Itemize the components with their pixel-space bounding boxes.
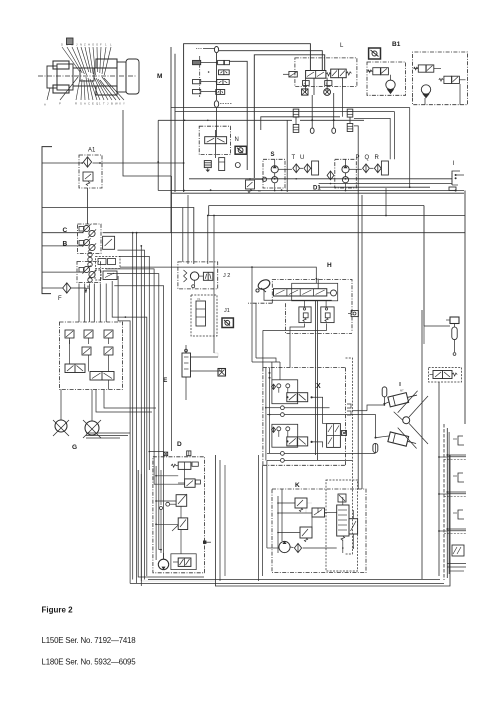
wire staircase 3: [106, 269, 154, 484]
pump P2 group: [335, 159, 357, 188]
valve K2: [312, 508, 325, 517]
pilot oval right: [332, 93, 336, 133]
steering cylinders: [388, 390, 418, 448]
fan motor G1: [53, 390, 69, 437]
small reservoir box: [219, 158, 225, 171]
icon N symbol box: [235, 146, 246, 154]
label N: [235, 137, 239, 143]
filter silencer below N: [204, 161, 211, 172]
accumulator steering 2: [373, 444, 378, 453]
label A1: [88, 148, 96, 154]
wire cluster drops to G: [79, 284, 106, 323]
shock valve right: [321, 307, 334, 323]
label R: [375, 155, 380, 161]
wire pilot line y120: [158, 119, 364, 121]
valve K1: [295, 498, 307, 512]
wire drop x214: [213, 215, 218, 357]
label B: [63, 241, 68, 248]
svg-text:1: 1: [105, 43, 107, 47]
symbol crossed square under L: [302, 89, 308, 95]
svg-text:R: R: [375, 155, 380, 161]
fan motor valve group left of B1: [367, 62, 406, 95]
svg-text:A: A: [44, 103, 46, 107]
wire X internal: [312, 397, 327, 447]
priority valve L: [283, 58, 357, 87]
pilot oval left: [310, 95, 314, 133]
enclosure X dashdot: [263, 368, 346, 466]
wire G to D links: [96, 380, 156, 412]
icon J1 symbol box: [222, 318, 233, 328]
label M: [157, 73, 162, 80]
label D1: [313, 186, 321, 192]
wire cluster drops right: [112, 276, 147, 583]
wire M top edge to L: [184, 44, 311, 107]
valve D3a: [166, 494, 187, 506]
wire H risers: [264, 278, 318, 300]
accumulator steering 1: [382, 387, 387, 405]
svg-text:W: W: [115, 102, 118, 106]
wire bus y178: [189, 178, 452, 180]
port symbol box under L 2: [325, 81, 332, 86]
enclosure K dashdot: [272, 489, 366, 573]
svg-text:H: H: [88, 43, 90, 47]
wire K internals: [267, 489, 354, 553]
component I unit: [449, 161, 464, 192]
component E2 box: [218, 369, 226, 377]
enclosure D dashdot: [153, 457, 205, 573]
wire bus y215: [209, 206, 465, 216]
svg-text:B: B: [111, 102, 113, 106]
enclosure K inner dashed: [326, 480, 358, 571]
wire left bracket: [42, 147, 52, 294]
spring cylinder K: [337, 505, 349, 541]
svg-text:D: D: [61, 43, 63, 47]
wire X quick couplings low: [267, 452, 376, 463]
wire tank stubs: [438, 456, 447, 532]
wire cylinder feeds: [352, 402, 389, 453]
steering wheel: [256, 278, 272, 292]
solenoid valve group X lower: [272, 424, 313, 447]
svg-text:T: T: [103, 102, 105, 106]
machine callout leader lines top: [62, 47, 111, 75]
wire B1 returns: [171, 84, 460, 159]
wire bus y183: [319, 183, 452, 185]
wire A1 down: [87, 188, 89, 224]
label B1: [392, 41, 401, 48]
svg-text:Figure 2: Figure 2: [42, 605, 74, 614]
wire bus y207: [42, 208, 194, 265]
wire staircase 5: [114, 286, 163, 559]
svg-text:S: S: [271, 152, 275, 158]
label L: [340, 43, 344, 49]
enclosure K outer 2: [220, 460, 225, 581]
label C: [63, 227, 68, 234]
wire X feeds top: [251, 266, 280, 380]
cooling fan valve block B1: [413, 52, 468, 105]
svg-text:X: X: [119, 102, 121, 106]
svg-text:X: X: [316, 383, 321, 390]
servo valve cluster ABC: [77, 224, 101, 283]
wire bus y233: [103, 232, 465, 234]
wire middle vertical bundle: [133, 233, 142, 586]
check valve D1: [327, 171, 334, 180]
label K: [295, 482, 300, 489]
wire drop x171: [171, 176, 173, 451]
valve M brake: [246, 177, 267, 193]
twin spool valve X: [327, 424, 347, 448]
svg-text:E: E: [92, 102, 94, 106]
label X: [316, 383, 321, 390]
check valve T: [293, 164, 300, 173]
component pressure unit right: [446, 317, 459, 355]
check valve K: [294, 543, 301, 552]
label J2: [223, 273, 230, 279]
svg-text:D: D: [177, 441, 182, 448]
wire bus y190: [158, 190, 464, 192]
wire D internals: [155, 466, 184, 560]
right small marks: [347, 404, 351, 415]
label G: [72, 444, 77, 451]
svg-text:H: H: [327, 262, 332, 269]
wire long verticals mid: [315, 301, 317, 461]
label T: [292, 155, 296, 161]
valve D bottom: [171, 554, 196, 570]
icon B1 symbol box: [369, 48, 381, 59]
wire pilot right bend: [354, 118, 390, 159]
machine callout letters: [44, 38, 125, 107]
label P: [356, 155, 360, 161]
svg-text:P: P: [59, 102, 61, 106]
check valve F: [63, 283, 71, 293]
svg-text:J1: J1: [224, 308, 230, 314]
svg-text:A: A: [304, 82, 306, 86]
small box K: [338, 494, 346, 502]
svg-text:S: S: [80, 102, 82, 106]
svg-text:L180E Ser. No. 5932—6095: L180E Ser. No. 5932—6095: [42, 657, 137, 666]
wire bottom line 1: [148, 579, 440, 581]
tall dashed box right: [346, 358, 353, 554]
wire L right drop: [342, 89, 344, 117]
symbol crossed circle under L: [324, 89, 331, 96]
cartridge stack left under L: [293, 109, 299, 132]
label D: [177, 441, 182, 448]
enclosure D outer: [138, 470, 215, 581]
wire cluster right B: [120, 267, 316, 283]
svg-text:G: G: [96, 43, 98, 47]
wire bus y176: [123, 110, 172, 176]
wire A1 to bus: [157, 120, 159, 190]
wire D entering lines: [149, 451, 164, 560]
wire D exit right: [203, 541, 211, 544]
wire right drop x424: [423, 206, 425, 327]
wire X to K verticals: [259, 455, 267, 581]
label E: [163, 377, 168, 384]
valve K4: [349, 519, 358, 534]
svg-text:B: B: [63, 241, 68, 248]
svg-text:O: O: [92, 43, 95, 47]
label II: [399, 382, 404, 393]
label J1: [224, 308, 230, 314]
wire staircase 4: [107, 274, 159, 550]
wire bus y187: [319, 186, 430, 188]
port symbol box under L: [303, 81, 310, 86]
label Q circle: [235, 163, 240, 168]
servo cluster right boxes: [95, 236, 120, 280]
wire drop x207: [207, 215, 209, 264]
svg-text:1: 1: [99, 102, 101, 106]
wire y162 through A1: [42, 162, 185, 164]
svg-text:J 2: J 2: [223, 273, 230, 279]
tank assembly: [444, 424, 466, 580]
valve right dashed: [429, 368, 462, 383]
wire E links: [186, 345, 222, 400]
wire H below: [290, 300, 331, 307]
check valve U: [304, 164, 311, 173]
tank box PQR: [381, 161, 388, 175]
note text under motor: [86, 433, 130, 438]
wire verticals x359: [354, 126, 362, 489]
check valve P: [363, 164, 370, 173]
wire H exits: [263, 324, 327, 368]
valve D4a: [172, 518, 188, 531]
svg-text:A: A: [84, 102, 86, 106]
machine overview top view: [38, 59, 139, 95]
svg-text:T: T: [292, 155, 296, 161]
wire B1 drop x408: [409, 108, 411, 189]
enclosure M left verticals: [171, 47, 175, 233]
wire G interior drops: [70, 340, 109, 372]
caption L180E: [42, 657, 137, 666]
wire B row: [42, 245, 84, 247]
svg-text:G: G: [72, 444, 77, 451]
svg-text:Z: Z: [84, 43, 86, 47]
pump J2 group: [178, 262, 218, 289]
wire staircase 1: [118, 250, 145, 579]
svg-text:I: I: [453, 161, 455, 167]
wire b1 return mid: [261, 117, 340, 130]
valve block G: [60, 322, 123, 390]
wire right col verticals: [422, 310, 439, 579]
wire M row1 drop: [229, 61, 247, 170]
label A: [86, 286, 90, 292]
wire bus y195: [171, 189, 464, 193]
wire drop x188: [187, 195, 189, 264]
svg-text:Q: Q: [365, 155, 370, 161]
caption L150E: [42, 636, 137, 645]
icon D small crossbox: [164, 452, 168, 456]
svg-text:A1: A1: [88, 148, 96, 154]
valve N assembly: [199, 126, 230, 158]
svg-text:MT: MT: [400, 389, 404, 393]
svg-text:L: L: [340, 43, 344, 49]
pump D bottom: [158, 559, 168, 569]
wire bundle to D K: [136, 451, 138, 453]
wire M pump to L b: [219, 51, 322, 71]
wire X left verticals: [265, 368, 271, 461]
svg-text:N: N: [80, 43, 82, 47]
fan motor G2: [83, 390, 101, 439]
label S: [271, 152, 275, 158]
svg-text:R: R: [75, 102, 77, 106]
wire staircase 2: [119, 256, 149, 470]
valve D1a: [171, 462, 198, 469]
svg-text:M: M: [258, 189, 261, 193]
wire brake link: [250, 178, 262, 180]
wire drop x386: [385, 188, 387, 216]
wire pump drops: [274, 178, 347, 191]
steering valve H: [274, 283, 338, 301]
component H side box: [348, 311, 358, 317]
svg-text:F: F: [58, 296, 62, 302]
svg-text:K: K: [295, 482, 300, 489]
svg-text:E: E: [163, 377, 168, 384]
label Q2: [365, 155, 370, 161]
articulation linkage lines: [394, 391, 428, 449]
svg-text:F: F: [100, 43, 102, 47]
wire mid row: [42, 271, 84, 273]
wire pump links: [275, 159, 374, 176]
wire pilot drop left: [286, 120, 288, 192]
svg-text:J: J: [107, 102, 109, 106]
wire L drops: [306, 78, 343, 95]
check valve R: [374, 164, 381, 173]
solenoid valve group X upper: [272, 380, 313, 404]
svg-text:B: B: [326, 82, 328, 86]
svg-text:‖: ‖: [399, 382, 401, 388]
wire C row: [42, 232, 84, 234]
shock valve left: [299, 307, 311, 323]
svg-text:J: J: [76, 43, 78, 47]
pump K: [279, 541, 290, 552]
pump unit M components: [184, 47, 232, 193]
machine callout leader lines bottom: [47, 77, 124, 100]
svg-text:L150E Ser. No. 7192—7418: L150E Ser. No. 7192—7418: [42, 636, 137, 645]
wire bundle bends top: [132, 232, 142, 247]
svg-text:V1: V1: [197, 297, 201, 301]
filter A1: [79, 155, 102, 188]
label U: [300, 155, 304, 161]
svg-text:Y: Y: [123, 102, 125, 106]
svg-text:L: L: [110, 43, 112, 47]
wire right top link: [424, 325, 450, 327]
icon D H label: [187, 451, 191, 456]
component E connector: [182, 349, 191, 377]
pump S group: [263, 159, 285, 188]
wire X quick couplings: [267, 406, 352, 417]
svg-text:U: U: [300, 155, 304, 161]
valve D2a: [178, 479, 200, 487]
wire bus y205: [209, 205, 424, 207]
label H: [327, 262, 332, 269]
wire F row: [42, 288, 87, 293]
svg-text:B1: B1: [392, 41, 401, 48]
enclosure K outer: [215, 455, 450, 586]
enclosure H dashdot: [248, 280, 352, 334]
valve K3: [300, 527, 312, 542]
svg-text:C: C: [88, 102, 90, 106]
wire M row to L c: [254, 55, 324, 178]
tank box TU: [312, 161, 319, 175]
caption figure 2: [42, 605, 74, 614]
svg-text:N: N: [235, 137, 239, 143]
svg-text:P: P: [356, 155, 360, 161]
wire bottom line 2: [130, 582, 444, 584]
cartridge stack right under L: [347, 109, 353, 131]
label F: [58, 296, 62, 302]
valve J1: [191, 295, 217, 336]
svg-text:M: M: [157, 73, 162, 80]
wire right drop x465: [464, 191, 466, 425]
